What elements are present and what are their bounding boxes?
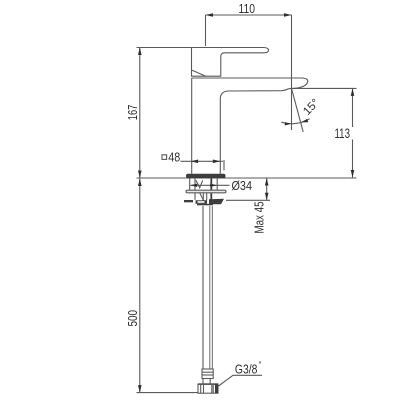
shank left vertical [189, 179, 191, 191]
pipe upper connector right [206, 193, 208, 201]
body right edge [219, 99, 221, 174]
15deg arc [281, 119, 310, 124]
nut right dark band [215, 384, 218, 393]
dim 167 line [139, 48, 141, 179]
dim 167 bottom arrow [138, 171, 142, 179]
deck line [137, 177, 357, 179]
15deg arc left arrow [285, 122, 292, 125]
flange washer bar [186, 190, 226, 193]
fitting collar [202, 369, 213, 379]
dim 113 line lower segment [352, 140, 354, 178]
handle chamfer diagonal [192, 70, 207, 76]
Max45 extension line (bracket bottom) [226, 199, 270, 201]
handle lever outline [192, 48, 269, 77]
collar ring 2 [202, 374, 213, 376]
collar neck right [209, 379, 211, 385]
collar ring 1 [202, 371, 213, 373]
svg-text:Ø34: Ø34 [232, 179, 253, 193]
svg-text:Max 45: Max 45 [253, 201, 267, 233]
dim 110 line [206, 14, 292, 16]
G3/8 leader line [219, 375, 263, 386]
dim Max45 line [266, 178, 268, 200]
body top / spout top with tip curve [192, 78, 308, 88]
dim 500 bottom arrow [138, 385, 142, 393]
supply pipe outer line [211, 206, 213, 369]
dim 113 top arrow [351, 88, 355, 96]
dim 500 line [139, 179, 141, 393]
dim sq48 left arrow [191, 160, 199, 164]
bottom reference line [137, 392, 219, 394]
nut facet line 4 [212, 384, 214, 393]
svg-text:48: 48 [168, 151, 180, 165]
15deg arc right arrow [301, 119, 308, 123]
pipe upper connector left [202, 193, 204, 201]
dim dia34 left arrow [190, 184, 197, 187]
dim 110 right arrow [284, 13, 292, 17]
dim Max45 bottom arrow [265, 193, 269, 201]
supply pipe left line [202, 206, 204, 369]
dim 167 top arrow [138, 48, 142, 56]
dim 113 bottom arrow [351, 170, 355, 178]
dim 110 left extension line [205, 15, 207, 46]
nut facet line 3 [211, 384, 213, 393]
spout underside with aerator wave [220, 88, 291, 99]
15deg tilted line [292, 88, 304, 132]
base plate escutcheon [186, 174, 226, 179]
body left edge [191, 78, 193, 174]
svg-text:500: 500 [126, 310, 140, 327]
dim dia34 line [190, 184, 229, 186]
svg-text:15°: 15° [301, 97, 322, 118]
dim dia34 right arrow [210, 184, 217, 187]
dim sq48 right arrow [213, 160, 221, 164]
svg-text:G3/8: G3/8 [235, 363, 258, 377]
dim 500 top arrow [138, 179, 142, 187]
dim Max45 top arrow [265, 178, 269, 186]
dim 110 left arrow [206, 13, 214, 17]
svg-text:110: 110 [239, 1, 256, 16]
svg-text:″: ″ [259, 361, 262, 370]
dim sq48 square symbol [162, 155, 167, 160]
dim 113 top extension line (spout outlet level) [292, 87, 357, 89]
mounting bracket [184, 199, 224, 206]
nut top edge thick [198, 383, 218, 385]
nut facet line 2 [203, 384, 205, 393]
collar neck left [202, 379, 204, 385]
dim 167 top extension line [137, 47, 192, 49]
stud rod right thick [210, 179, 212, 201]
lower diagonal brace [200, 193, 204, 202]
dim 113 line upper segment [352, 88, 354, 127]
supply pipe right line [209, 206, 211, 369]
svg-text:113: 113 [335, 126, 351, 141]
dim sq48 line [181, 160, 223, 162]
dim sq48 extension tick [223, 160, 225, 171]
svg-text:167: 167 [126, 105, 140, 121]
dim 110 right extension line / 15deg vertex line [291, 15, 293, 130]
stud rod left [194, 179, 196, 200]
G3/8 nut [198, 384, 218, 393]
shank hatch V [196, 180, 203, 188]
nut facet line 1 [200, 384, 202, 393]
shank right vertical [216, 179, 218, 191]
